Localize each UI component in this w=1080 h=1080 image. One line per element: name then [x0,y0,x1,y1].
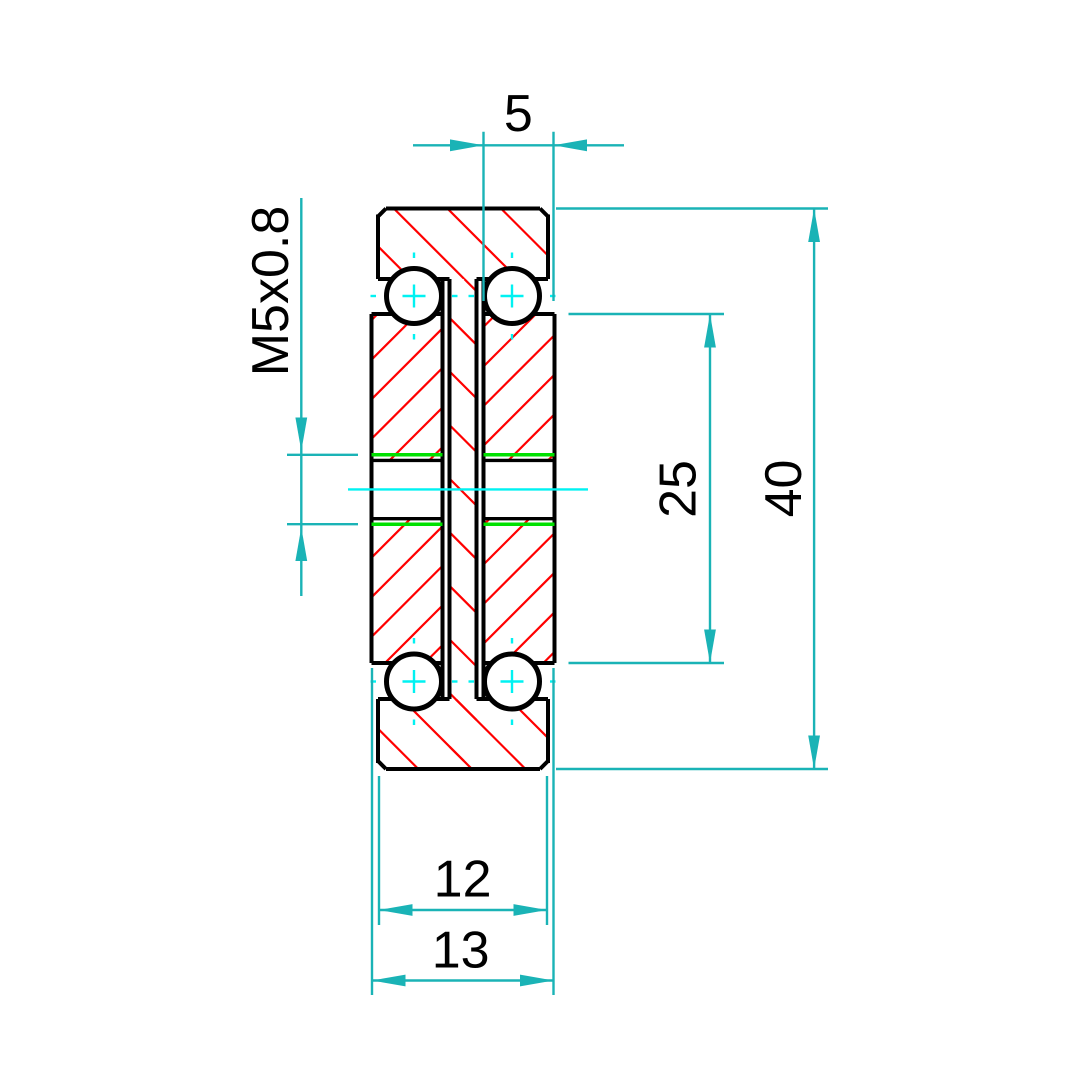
outer wheel flange top outline [378,209,548,280]
svg-text:12: 12 [434,851,492,909]
hatch: outer wheel flange top (red, backslash direction) [358,209,568,280]
dimension 25: nut outer diameter [569,314,725,663]
thread bore minor-diameter lines (black) [372,460,555,518]
center mark ball bottom-right [469,638,556,725]
hatch: outer wheel flange bottom (red) [358,699,568,769]
outer wheel flange bottom outline [378,699,548,769]
left nut column outline [372,279,443,699]
ball bottom-left [387,654,442,709]
svg-text:13: 13 [432,922,490,980]
ball bottom-right [485,654,540,709]
main horizontal axis centerline [348,488,588,490]
svg-text:5: 5 [504,85,533,143]
center mark ball top-right [469,253,556,340]
dimension 12: wheel rim width [379,776,547,925]
hatch: right nut column (red) [484,314,555,663]
dimension 13: overall width [372,668,554,995]
svg-text:M5x0.8: M5x0.8 [242,206,300,377]
dimension M5x0.8: thread [242,198,358,596]
right nut column outline [484,279,555,699]
central web strip walls [450,279,477,699]
ball top-right [485,269,540,324]
ball top-left [387,269,442,324]
hatch: left nut column (red, slash direction) [372,314,443,663]
center mark ball bottom-left [371,638,458,725]
thread major-diameter cosmetic lines (green) [372,455,555,524]
dimension 5: width of nut column [413,85,624,301]
center mark ball top-left [371,253,458,340]
svg-text:40: 40 [755,460,813,518]
hatch: central web strip (red zigzag) [450,279,477,761]
dimension 40: outer diameter [556,209,828,770]
svg-text:25: 25 [650,460,708,518]
